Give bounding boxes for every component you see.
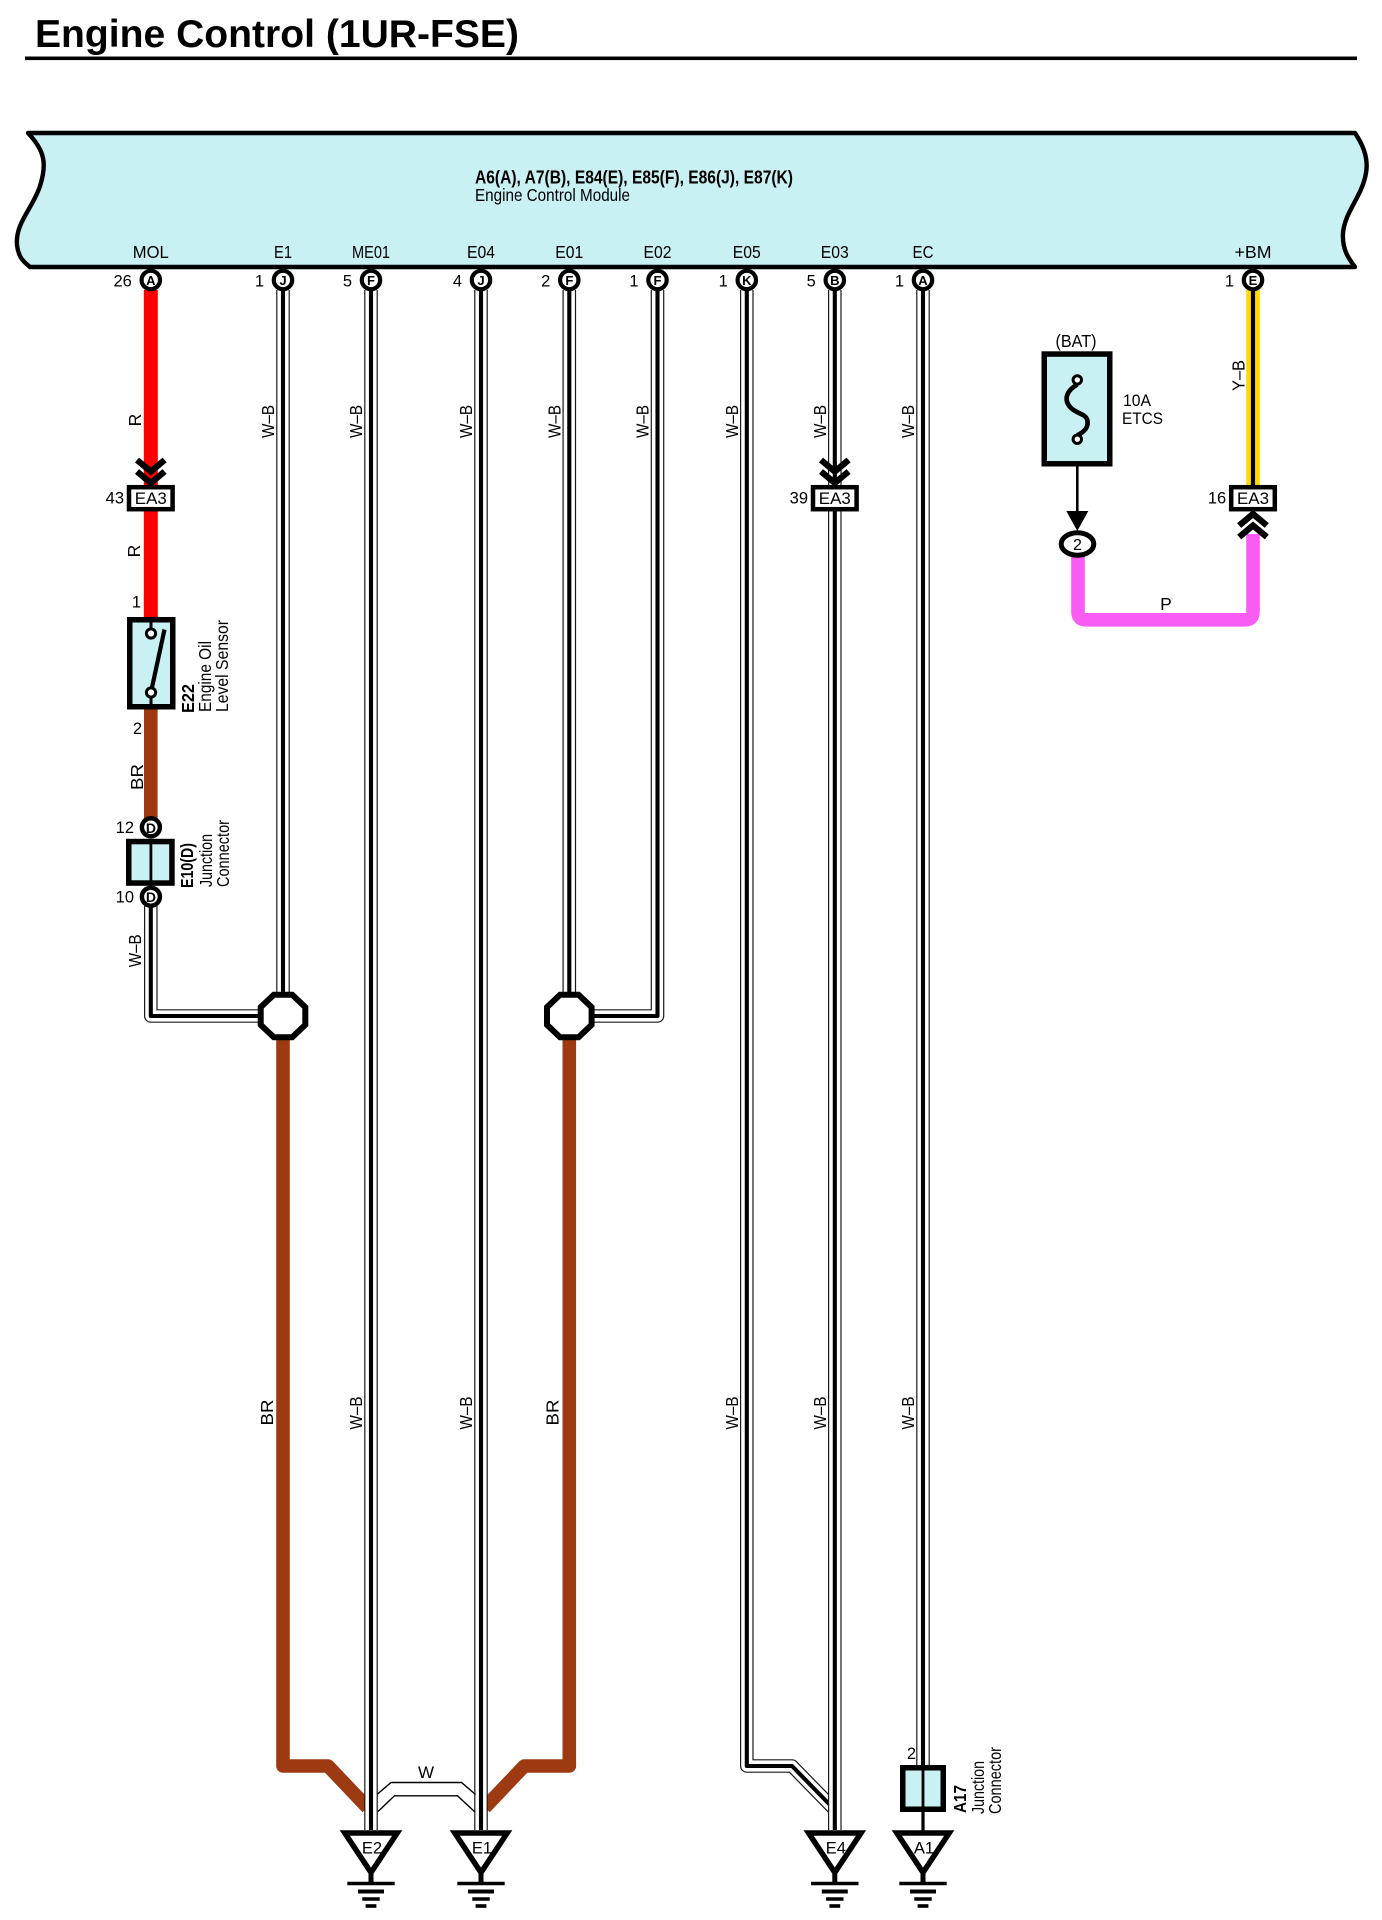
- svg-text:W–B: W–B: [810, 1397, 830, 1430]
- svg-text:Connector: Connector: [213, 820, 233, 887]
- wire W bridge between ground wires: [378, 1783, 476, 1795]
- svg-text:A: A: [146, 273, 156, 288]
- svg-text:W–B: W–B: [125, 934, 145, 967]
- svg-text:P: P: [1160, 594, 1172, 614]
- svg-text:W: W: [418, 1763, 434, 1782]
- wire W-B ME01 to ground E2: [364, 290, 378, 1830]
- svg-text:R: R: [124, 545, 144, 558]
- svg-text:4: 4: [453, 273, 462, 291]
- ground E4: [809, 1833, 861, 1873]
- svg-text:EA3: EA3: [1237, 490, 1269, 508]
- wire W-B E04 to ground E1: [474, 290, 488, 1830]
- svg-text:1: 1: [132, 594, 141, 612]
- wire Y-B +BM to EA3: [1246, 290, 1260, 488]
- wire W-B E1 pin to junction J1: [276, 290, 290, 996]
- svg-text:W–B: W–B: [346, 405, 366, 438]
- svg-text:J: J: [477, 273, 484, 288]
- junction node J1 octagon: [261, 995, 306, 1038]
- connector EA3 (E03/39): [821, 460, 849, 472]
- svg-text:Engine Control (1UR-FSE): Engine Control (1UR-FSE): [35, 13, 519, 56]
- arrow from fuse to node 2: [1076, 465, 1079, 515]
- svg-text:EA3: EA3: [819, 490, 851, 508]
- svg-text:W–B: W–B: [722, 1397, 742, 1430]
- svg-text:EA3: EA3: [135, 490, 167, 508]
- svg-text:E02: E02: [644, 242, 672, 262]
- E10(D) junction connector: [142, 818, 160, 836]
- svg-text:MOL: MOL: [133, 242, 169, 262]
- svg-text:F: F: [565, 273, 573, 288]
- svg-text:BR: BR: [257, 1400, 277, 1426]
- svg-text:10: 10: [116, 888, 134, 906]
- svg-text:E03: E03: [821, 242, 849, 262]
- svg-text:2: 2: [541, 273, 550, 291]
- wire MOL red R: [144, 290, 158, 619]
- svg-text:W–B: W–B: [722, 405, 742, 438]
- svg-text:E2: E2: [362, 1840, 382, 1858]
- wire BR E22 to E10: [144, 707, 158, 818]
- svg-text:W–B: W–B: [633, 405, 653, 438]
- node oval 2: [1061, 533, 1094, 556]
- svg-text:Level Sensor: Level Sensor: [212, 620, 232, 712]
- wire W-B E01 pin to junction J2: [562, 290, 576, 996]
- svg-text:E4: E4: [826, 1840, 846, 1858]
- svg-text:Engine Control Module: Engine Control Module: [475, 185, 630, 205]
- wire BR junction J2 to ground E1: [485, 1038, 570, 1808]
- svg-text:E05: E05: [733, 242, 761, 262]
- svg-text:39: 39: [790, 490, 808, 508]
- svg-text:EC: EC: [913, 242, 934, 262]
- svg-text:W–B: W–B: [346, 1397, 366, 1430]
- svg-text:BR: BR: [127, 764, 147, 790]
- svg-text:1: 1: [1225, 273, 1234, 291]
- svg-text:W–B: W–B: [258, 405, 278, 438]
- svg-text:B: B: [830, 273, 839, 288]
- svg-text:E04: E04: [467, 242, 495, 262]
- svg-text:1: 1: [629, 273, 638, 291]
- svg-text:Connector: Connector: [985, 1747, 1005, 1814]
- svg-text:ETCS: ETCS: [1122, 410, 1163, 428]
- svg-text:F: F: [654, 273, 662, 288]
- svg-text:D: D: [146, 820, 156, 836]
- svg-text:W–B: W–B: [898, 1397, 918, 1430]
- svg-text:26: 26: [113, 273, 131, 291]
- svg-text:E10(D): E10(D): [177, 843, 197, 888]
- svg-text:W–B: W–B: [810, 405, 830, 438]
- svg-text:A: A: [918, 273, 928, 288]
- connector EA3 (+BM/16): [1231, 487, 1275, 509]
- svg-text:E1: E1: [274, 242, 292, 262]
- svg-text:K: K: [742, 273, 752, 288]
- svg-text:Y–B: Y–B: [1229, 360, 1249, 391]
- svg-text:D: D: [146, 889, 156, 905]
- E22 Engine Oil Level Sensor: [130, 620, 173, 707]
- wire P pink: [1078, 534, 1253, 620]
- svg-text:1: 1: [895, 273, 904, 291]
- svg-text:5: 5: [807, 273, 816, 291]
- svg-text:A1: A1: [914, 1840, 934, 1858]
- connector EA3 (MOL/43): [137, 460, 165, 472]
- svg-text:16: 16: [1208, 490, 1226, 508]
- svg-text:E01: E01: [555, 242, 583, 262]
- junction node J2 octagon: [547, 995, 592, 1038]
- svg-text:W–B: W–B: [898, 405, 918, 438]
- svg-text:A17: A17: [950, 1785, 970, 1813]
- svg-text:F: F: [367, 273, 375, 288]
- svg-text:10A: 10A: [1123, 392, 1151, 410]
- ground E2: [345, 1833, 397, 1873]
- ground E1: [455, 1833, 507, 1873]
- svg-text:R: R: [125, 414, 145, 427]
- svg-text:J: J: [279, 273, 286, 288]
- svg-text:+BM: +BM: [1235, 242, 1272, 262]
- svg-text:W–B: W–B: [544, 405, 564, 438]
- ECM module band: [17, 133, 1367, 267]
- svg-text:ME01: ME01: [352, 242, 390, 262]
- svg-text:1: 1: [255, 273, 264, 291]
- wire W-B E10 to junction J1: [151, 906, 262, 1016]
- svg-text:E1: E1: [472, 1840, 492, 1858]
- wire W-B EC to junction connector A17: [916, 290, 930, 1768]
- svg-text:(BAT): (BAT): [1056, 331, 1097, 351]
- ground A1: [897, 1833, 949, 1873]
- wire W-B E05 joins E03: [747, 290, 834, 1809]
- A17 junction connector: [903, 1768, 944, 1810]
- svg-text:5: 5: [343, 273, 352, 291]
- svg-text:1: 1: [719, 273, 728, 291]
- svg-text:12: 12: [116, 819, 134, 837]
- svg-text:W–B: W–B: [456, 405, 476, 438]
- svg-text:2: 2: [1073, 537, 1082, 554]
- svg-text:43: 43: [106, 490, 124, 508]
- svg-text:W–B: W–B: [456, 1397, 476, 1430]
- svg-text:2: 2: [907, 1745, 916, 1763]
- wire W-B E02 to junction J2: [592, 290, 658, 1016]
- svg-text:E: E: [1249, 273, 1258, 288]
- wire BR junction J1 to ground E2: [283, 1038, 368, 1808]
- svg-text:BR: BR: [543, 1400, 563, 1426]
- wire W-B E03 to ground E4: [828, 290, 842, 1830]
- svg-text:2: 2: [133, 720, 142, 738]
